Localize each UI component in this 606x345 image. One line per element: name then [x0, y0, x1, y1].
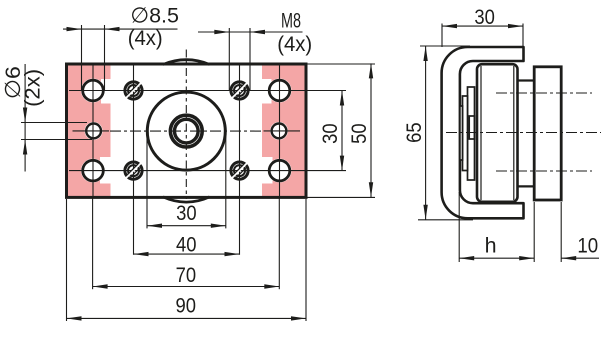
corner hole dia8.5 TL [83, 80, 104, 101]
bottom hole centerline [496, 170, 592, 172]
flange block outline [534, 67, 561, 200]
axis centerline [446, 132, 601, 134]
dia8.5 dimension line [63, 28, 178, 30]
column centerline B (x=279.5) [279, 64, 281, 197]
svg-text:70: 70 [176, 263, 197, 287]
bottom boss bump [163, 197, 210, 202]
90-dim ext lines [66, 199, 68, 321]
central boss ring inner [175, 119, 199, 143]
30-dim ext lines (boss tangents) [146, 131, 148, 228]
arrows 30 bottom [147, 224, 162, 228]
side view dims [418, 24, 599, 263]
central boss outer [147, 92, 225, 170]
dia6 left crosshair [73, 130, 110, 132]
corner hole fills [81, 79, 105, 103]
arrowheads front view [23, 27, 373, 321]
arrows 90 [67, 316, 82, 320]
right 50-dim ext lines [308, 63, 376, 65]
arrow M8 right [250, 30, 265, 34]
hole strokes [83, 80, 290, 181]
svg-text:30: 30 [318, 123, 342, 144]
svg-text:(4x): (4x) [277, 32, 312, 56]
arrows right 50 [369, 63, 373, 78]
extend col A and B lines down to 70-dim [92, 197, 94, 289]
arrows 70 [93, 284, 108, 288]
dim line 40 [134, 253, 240, 255]
pink clamp area right [262, 66, 305, 197]
row centerline top [69, 90, 346, 92]
arrows 30 top [442, 24, 457, 28]
arrows h [459, 256, 474, 260]
svg-text:(4x): (4x) [128, 26, 163, 50]
central boss fill [146, 91, 227, 172]
right 50-dim line [370, 63, 372, 197]
svg-text:50: 50 [347, 123, 371, 144]
dim line 30 bottom [147, 225, 226, 227]
plate outline [67, 64, 307, 197]
dim line 90 [67, 317, 307, 319]
top hole centerline [496, 92, 592, 94]
right 30-dim line [341, 91, 343, 171]
svg-text:90: 90 [176, 294, 197, 318]
corner hole dia8.5 BL [83, 160, 104, 181]
top boss bump [163, 60, 210, 65]
arrow dia6 top [23, 108, 27, 123]
central boss ring outer [170, 115, 202, 147]
svg-text:65: 65 [402, 122, 426, 143]
dim line 70 [93, 286, 280, 288]
M8 hole TR [231, 82, 248, 99]
M8 dimension line [198, 31, 303, 33]
h dim [459, 257, 534, 259]
arrow dia8.5 left [67, 27, 82, 31]
svg-text:h: h [485, 234, 497, 258]
washer stack (stepped cone) [460, 87, 475, 180]
M8 hole BL [125, 162, 142, 179]
svg-text:M8: M8 [281, 8, 301, 32]
65 dim [425, 46, 427, 220]
rod end block [469, 116, 474, 139]
dia6 dim line [24, 64, 26, 172]
arrow dia6 bottom [23, 140, 27, 155]
flange block fill [534, 67, 561, 200]
ext lines dia8.5 dim [81, 25, 83, 90]
ext lines M8 dim [228, 28, 230, 90]
pink clamp area left [68, 66, 111, 197]
arrow dia8.5 right [105, 27, 120, 31]
svg-text:40: 40 [176, 233, 197, 257]
svg-text:30: 30 [176, 201, 197, 225]
row centerline bottom [69, 170, 346, 172]
svg-text:10: 10 [577, 234, 598, 258]
corner hole dia8.5 TR [269, 80, 290, 101]
side view centerlines [446, 93, 601, 171]
dia6 hole left [86, 123, 101, 138]
corner hole dia8.5 BR [269, 160, 290, 181]
clamp hook profile [442, 47, 524, 218]
central vertical centerline (dash-dot) [185, 50, 187, 200]
column centerline M8 left, extends to 40-dim [133, 64, 135, 255]
dia6 hole right [272, 123, 287, 138]
column centerline A (x=93) [92, 64, 94, 197]
column centerline M8 right, extends to 40-dim [239, 64, 241, 255]
arrows right 30 [340, 91, 344, 106]
10 dim [561, 257, 599, 259]
cylinder body [477, 64, 518, 202]
arrows 65 [423, 46, 427, 61]
body inner line [513, 66, 515, 200]
arrow 10 [561, 256, 576, 260]
dia6 right crosshair [264, 130, 301, 132]
central horizontal centerline (dash-dot) [110, 130, 262, 132]
arrows 40 [134, 252, 149, 256]
30 dim line top [442, 25, 523, 27]
mounting plate body [67, 64, 307, 197]
dia6 ext lines [21, 122, 87, 124]
M8 hole TL [125, 82, 142, 99]
M8 hole BR [231, 162, 248, 179]
dia6 hole fills [85, 122, 103, 140]
svg-text:∅8.5: ∅8.5 [130, 4, 179, 28]
arrow M8 left [214, 30, 229, 34]
spigot [518, 79, 535, 81]
M8 threaded holes [125, 82, 248, 179]
svg-text:(2x): (2x) [21, 69, 45, 107]
svg-text:30: 30 [474, 5, 495, 29]
